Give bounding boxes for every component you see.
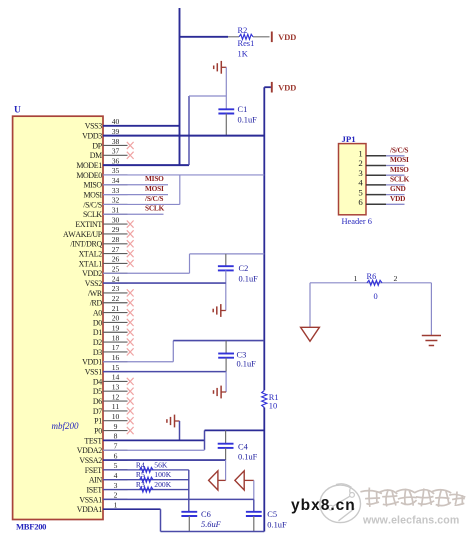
svg-text:U: U (14, 106, 21, 116)
svg-text:EXTINT: EXTINT (75, 220, 102, 229)
svg-text:6: 6 (114, 451, 118, 460)
svg-text:14: 14 (112, 373, 120, 382)
svg-text:5: 5 (358, 187, 363, 197)
svg-text:100K: 100K (154, 470, 171, 479)
svg-text:ybx8.cn: ybx8.cn (291, 497, 356, 514)
svg-text:D3: D3 (93, 348, 102, 357)
svg-text:www.elecfans.com: www.elecfans.com (362, 515, 459, 527)
svg-text:VDD: VDD (278, 83, 296, 93)
svg-text:VSS1: VSS1 (85, 367, 102, 376)
svg-text:GND: GND (390, 184, 406, 193)
svg-text:32: 32 (112, 196, 120, 205)
svg-text:MISO: MISO (145, 174, 164, 183)
svg-text:22: 22 (112, 294, 120, 303)
svg-text:1: 1 (358, 149, 362, 159)
svg-text:Res1: Res1 (238, 39, 255, 48)
svg-text:0.1uF: 0.1uF (238, 452, 258, 461)
svg-text:XTAL1: XTAL1 (79, 259, 103, 268)
svg-text:2: 2 (358, 158, 362, 168)
svg-text:0.1uF: 0.1uF (239, 274, 259, 283)
svg-text:40: 40 (112, 117, 120, 126)
svg-text:D6: D6 (93, 397, 102, 406)
svg-text:5.6uF: 5.6uF (201, 520, 222, 529)
svg-text:VDD2: VDD2 (82, 269, 102, 278)
svg-text:39: 39 (112, 127, 120, 136)
svg-text:/S/C/S: /S/C/S (83, 200, 102, 209)
svg-text:34: 34 (112, 176, 120, 185)
svg-text:MODE1: MODE1 (76, 161, 102, 170)
svg-text:3: 3 (358, 168, 363, 178)
svg-text:AWAKE/UP: AWAKE/UP (63, 230, 103, 239)
svg-text:/INT/DRQ: /INT/DRQ (70, 240, 102, 249)
svg-text:36: 36 (112, 156, 120, 165)
svg-text:7: 7 (114, 442, 118, 451)
svg-text:C2: C2 (239, 264, 249, 273)
svg-text:A0: A0 (93, 308, 102, 317)
svg-text:200K: 200K (154, 480, 171, 489)
svg-text:VSSA1: VSSA1 (79, 495, 102, 504)
svg-text:16: 16 (112, 353, 120, 362)
svg-text:VDDA1: VDDA1 (77, 505, 102, 514)
svg-text:31: 31 (112, 206, 120, 215)
svg-text:MODE0: MODE0 (76, 171, 102, 180)
svg-text:20: 20 (112, 314, 120, 323)
svg-text:0.1uF: 0.1uF (267, 521, 287, 530)
svg-text:/RD: /RD (90, 299, 103, 308)
svg-text:DP: DP (92, 141, 102, 150)
svg-text:4: 4 (114, 471, 118, 480)
svg-text:15: 15 (112, 363, 120, 372)
svg-text:28: 28 (112, 235, 120, 244)
svg-text:12: 12 (112, 392, 120, 401)
svg-text:ISET: ISET (87, 485, 103, 494)
svg-text:C6: C6 (201, 510, 211, 519)
svg-text:D7: D7 (93, 407, 102, 416)
svg-text:MOSI: MOSI (390, 155, 409, 164)
svg-text:D2: D2 (93, 338, 102, 347)
svg-text:D1: D1 (93, 328, 102, 337)
svg-text:0: 0 (374, 292, 378, 301)
svg-text:R2: R2 (238, 26, 248, 35)
svg-text:24: 24 (112, 274, 120, 283)
svg-text:C4: C4 (238, 442, 249, 451)
svg-text:C5: C5 (267, 510, 277, 519)
svg-text:/S/C/S: /S/C/S (389, 145, 408, 154)
svg-text:XTAL2: XTAL2 (79, 249, 103, 258)
svg-text:SCLK: SCLK (83, 210, 102, 219)
svg-text:D5: D5 (93, 387, 102, 396)
svg-text:SCLK: SCLK (145, 204, 165, 213)
svg-text:1: 1 (354, 274, 358, 283)
svg-text:3: 3 (114, 481, 118, 490)
svg-text:VSS2: VSS2 (85, 279, 102, 288)
svg-text:VDD3: VDD3 (82, 132, 102, 141)
svg-text:5: 5 (114, 461, 118, 470)
svg-text:MISO: MISO (390, 165, 409, 174)
svg-text:MISO: MISO (83, 181, 102, 190)
svg-text:25: 25 (112, 265, 120, 274)
svg-text:VDD1: VDD1 (82, 358, 102, 367)
svg-text:10: 10 (269, 401, 277, 410)
svg-text:R3: R3 (136, 480, 145, 489)
svg-text:2: 2 (114, 491, 118, 500)
svg-text:26: 26 (112, 255, 120, 264)
svg-text:23: 23 (112, 284, 120, 293)
svg-text:VDD: VDD (278, 32, 296, 42)
svg-text:9: 9 (114, 422, 118, 431)
svg-text:DM: DM (90, 151, 102, 160)
svg-text:21: 21 (112, 304, 120, 313)
svg-text:JP1: JP1 (342, 134, 356, 144)
svg-text:D0: D0 (93, 318, 102, 327)
svg-text:13: 13 (112, 383, 120, 392)
svg-text:19: 19 (112, 324, 120, 333)
svg-text:27: 27 (112, 245, 120, 254)
svg-text:TEST: TEST (84, 436, 102, 445)
svg-text:/WR: /WR (88, 289, 103, 298)
svg-text:VDDA2: VDDA2 (77, 446, 102, 455)
svg-text:17: 17 (112, 343, 120, 352)
svg-text:VDD: VDD (390, 194, 405, 203)
svg-text:R6: R6 (367, 272, 377, 281)
svg-text:MOSI: MOSI (145, 184, 164, 193)
svg-text:11: 11 (112, 402, 120, 411)
svg-text:35: 35 (112, 166, 120, 175)
svg-text:4: 4 (358, 178, 363, 188)
svg-text:mbf200: mbf200 (52, 421, 80, 431)
svg-text:1K: 1K (238, 49, 248, 58)
svg-text:0.1uF: 0.1uF (238, 116, 258, 125)
svg-text:/S/C/S: /S/C/S (144, 194, 163, 203)
svg-text:VSSA2: VSSA2 (79, 456, 102, 465)
svg-text:30: 30 (112, 215, 120, 224)
svg-text:MOSI: MOSI (83, 191, 102, 200)
svg-text:P1: P1 (94, 417, 102, 426)
svg-text:R4: R4 (136, 460, 145, 469)
svg-text:33: 33 (112, 186, 120, 195)
svg-text:AIN: AIN (89, 476, 103, 485)
svg-text:D4: D4 (93, 377, 102, 386)
svg-text:C3: C3 (237, 350, 247, 359)
svg-text:2: 2 (394, 274, 398, 283)
svg-text:18: 18 (112, 333, 120, 342)
svg-text:SCLK: SCLK (390, 175, 410, 184)
svg-text:56K: 56K (154, 460, 168, 469)
svg-text:Header 6: Header 6 (342, 217, 372, 226)
svg-text:1: 1 (114, 501, 118, 510)
svg-text:C1: C1 (238, 105, 248, 114)
svg-text:R5: R5 (136, 470, 145, 479)
svg-text:37: 37 (112, 147, 120, 156)
svg-text:FSET: FSET (85, 466, 103, 475)
svg-text:8: 8 (114, 432, 118, 441)
svg-text:29: 29 (112, 225, 120, 234)
svg-text:0.1uF: 0.1uF (237, 359, 257, 368)
svg-text:38: 38 (112, 137, 120, 146)
svg-text:6: 6 (358, 197, 363, 207)
svg-text:MBF200: MBF200 (16, 521, 46, 531)
svg-text:10: 10 (112, 412, 120, 421)
svg-text:P0: P0 (94, 426, 102, 435)
svg-text:VSS3: VSS3 (85, 122, 102, 131)
